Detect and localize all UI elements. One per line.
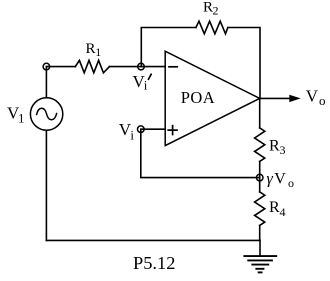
svg-text:R: R bbox=[269, 199, 280, 216]
svg-text:R: R bbox=[269, 137, 280, 154]
svg-text:γ: γ bbox=[267, 170, 274, 187]
svg-text:1: 1 bbox=[18, 111, 25, 126]
svg-text:o: o bbox=[319, 93, 326, 108]
svg-text:R: R bbox=[86, 41, 96, 57]
svg-text:4: 4 bbox=[280, 205, 286, 219]
svg-text:1: 1 bbox=[95, 45, 101, 59]
svg-text:i: i bbox=[130, 127, 134, 142]
svg-text:POA: POA bbox=[181, 88, 215, 107]
svg-text:o: o bbox=[288, 176, 294, 190]
svg-text:V: V bbox=[306, 87, 319, 106]
svg-text:P5.12: P5.12 bbox=[133, 253, 175, 273]
svg-text:2: 2 bbox=[213, 4, 219, 18]
svg-text:i: i bbox=[144, 78, 148, 93]
svg-text:3: 3 bbox=[280, 143, 286, 157]
svg-text:R: R bbox=[203, 0, 213, 16]
svg-text:V: V bbox=[274, 170, 286, 187]
